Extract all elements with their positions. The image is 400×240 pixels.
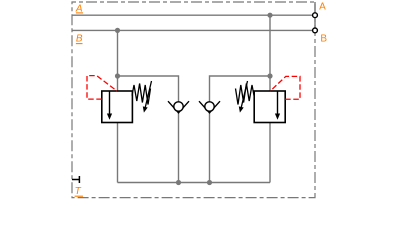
junction node RV2 inlet tee [267, 73, 272, 78]
wire: bottom collector line [118, 182, 271, 184]
svg-text:T: T [75, 186, 82, 197]
wire: line B (port B rail) [72, 29, 315, 31]
RV2 spring [236, 84, 255, 105]
junction CV1 at bottom line [176, 180, 181, 185]
wire: drop from line B to relief valve RV1 inlet [117, 30, 119, 91]
check valve CV2 seat [199, 101, 220, 113]
port B circle [313, 28, 318, 33]
RV2 internal flow arrow [275, 91, 280, 120]
junction on line A at RV2 drop [267, 13, 272, 18]
check valve CV1 ball [174, 102, 183, 111]
wire: drop from line A to relief valve RV2 inlet [269, 15, 271, 91]
RV1 pilot line (red dashed) [87, 76, 117, 100]
junction on line B at RV1 drop [115, 28, 120, 33]
RV1 internal flow arrow [107, 91, 112, 120]
relief valve RV1 body [102, 91, 133, 123]
RV2 adjustment arrow [239, 81, 248, 113]
wire: RV2 outlet down [269, 123, 271, 183]
enclosure (valve block boundary, chain-dashed) [72, 2, 315, 198]
wire: branch RV2 node to check valve CV2 [210, 76, 271, 183]
check valve CV1 seat [168, 101, 189, 113]
tank port T plug marker [72, 176, 79, 183]
label T (bottom, italic underlined) [75, 186, 83, 197]
svg-text:A: A [319, 2, 326, 13]
wire: RV1 outlet down [117, 123, 119, 183]
relief valve RV2 body [254, 91, 285, 123]
wire: branch RV1 node to check valve CV1 [118, 76, 179, 183]
label B (left, italic underlined) [76, 34, 83, 45]
RV1 spring [132, 84, 151, 105]
RV2 pilot line (red dashed) [270, 76, 300, 99]
label A (left, italic underlined) [75, 4, 83, 15]
junction CV2 at bottom line [207, 180, 212, 185]
svg-text:B: B [76, 34, 83, 45]
junction node RV1 inlet tee [115, 73, 120, 78]
wire: right border solid segment joining ports [314, 2, 316, 33]
port A circle [313, 13, 318, 18]
wire: line A (port A rail) [72, 14, 315, 16]
RV1 adjustment arrow [143, 81, 152, 113]
svg-text:B: B [320, 34, 327, 45]
check valve CV2 ball [205, 102, 214, 111]
